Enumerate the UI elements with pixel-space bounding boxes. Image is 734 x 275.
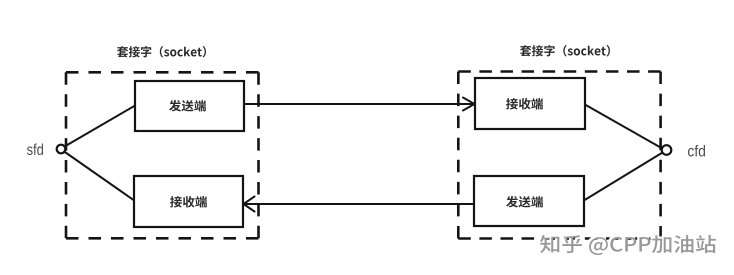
watermark: 知乎 @CPP加油站 (white emboss layer) bbox=[538, 233, 714, 253]
wire: sfd node to left recv box bbox=[62, 150, 135, 201]
watermark: 知乎 @CPP加油站 (gray layer) bbox=[540, 235, 716, 255]
label: sfd bbox=[27, 144, 43, 155]
node: cfd circle bbox=[662, 145, 672, 155]
label: left socket title 套接字（socket） bbox=[117, 46, 206, 58]
box: left 发送端 (sender) bbox=[135, 81, 244, 131]
label: cfd bbox=[688, 145, 705, 156]
node: sfd circle bbox=[57, 145, 66, 154]
arrowhead: into right recv box bbox=[463, 98, 475, 111]
wire: bottom data flow right to left bbox=[244, 203, 474, 205]
wire: right send box to cfd node bbox=[583, 151, 665, 201]
wire: right recv box to cfd node bbox=[584, 104, 665, 150]
arrowhead: into left recv box bbox=[244, 197, 255, 212]
wire: sfd node to left send box bbox=[62, 105, 136, 148]
box: left 接收端 (receiver) bbox=[134, 176, 243, 227]
label: right socket title 套接字（socket） bbox=[520, 45, 610, 57]
box: right 接收端 (receiver) bbox=[475, 78, 585, 129]
wire: top data flow left to right bbox=[244, 103, 474, 105]
right socket dashed box bbox=[458, 72, 660, 239]
left socket dashed box bbox=[66, 72, 259, 238]
box: right 发送端 (sender) bbox=[474, 176, 584, 226]
